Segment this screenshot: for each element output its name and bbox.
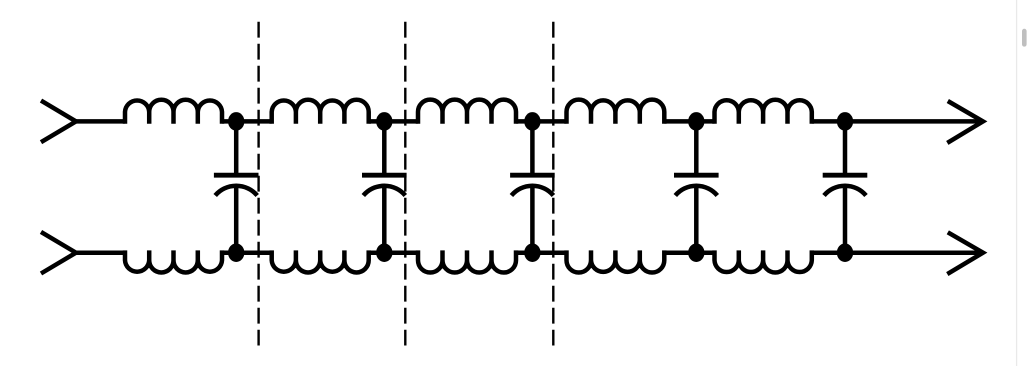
inductor L2' (bottom line, series) <box>272 250 369 272</box>
capacitor C2 (shunt) <box>362 121 407 252</box>
node junction dot top 5 <box>837 112 853 131</box>
node junction dot top 3 <box>524 112 540 131</box>
node junction dot bottom 1 <box>228 243 244 262</box>
node junction dot top 2 <box>376 112 392 131</box>
node junction dot bottom 3 <box>524 243 540 262</box>
inductor L3' (bottom line, series) <box>418 250 516 272</box>
wire bottom segment 5 <box>664 250 714 255</box>
inductor L4' (bottom line, series) <box>567 250 665 272</box>
output port arrow bottom-right <box>947 232 983 274</box>
wire top segment 5 <box>664 119 714 124</box>
inductor L2 (top line, series) <box>272 100 369 124</box>
capacitor C4 (shunt) <box>674 121 719 252</box>
node junction dot bottom 4 <box>688 243 704 262</box>
section boundary dashed line 3 <box>552 22 554 346</box>
wire bottom segment 3 <box>369 250 418 255</box>
wire bottom segment 1 <box>76 250 125 255</box>
input port arrow top-left <box>41 101 76 143</box>
inductor L1 (top line, series) <box>125 100 222 124</box>
wire top segment 4 <box>516 119 567 124</box>
node junction dot top 4 <box>688 112 704 131</box>
input port arrow bottom-left <box>41 232 76 274</box>
node junction dot top 1 <box>228 112 244 131</box>
inductor L1' (bottom line, series) <box>125 250 222 272</box>
capacitor C3 (shunt) <box>510 121 555 252</box>
capacitor C5 (shunt) <box>823 121 868 252</box>
section boundary dashed line 2 <box>404 22 406 346</box>
capacitor C1 (shunt) <box>214 121 259 252</box>
inductor L4 (top line, series) <box>567 100 665 124</box>
inductor L5 (top line, series) <box>715 100 812 124</box>
wire top segment 3 <box>369 119 418 124</box>
wire top segment 1 <box>76 119 125 124</box>
section boundary dashed line 1 <box>257 22 259 346</box>
node junction dot bottom 5 <box>837 243 853 262</box>
wire top segment 2 <box>222 119 272 124</box>
wire bottom segment 6 <box>812 250 981 255</box>
inductor L5' (bottom line, series) <box>715 250 812 272</box>
scrollbar thumb <box>1022 29 1027 47</box>
scrollbar track line <box>1016 0 1018 366</box>
inductor L3 (top line, series) <box>418 100 516 124</box>
node junction dot bottom 2 <box>376 243 392 262</box>
wire top segment 6 <box>812 119 981 124</box>
output port arrow top-right <box>947 101 983 143</box>
wire bottom segment 4 <box>516 250 567 255</box>
wire bottom segment 2 <box>222 250 272 255</box>
